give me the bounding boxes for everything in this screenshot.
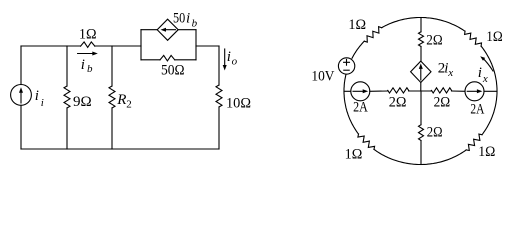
wire box bottom branch right [175,59,196,61]
resistor R2 [109,86,115,108]
wire box top branch left [141,29,157,31]
wire top middle segment [95,45,141,47]
svg-text:2Ω: 2Ω [426,32,442,48]
wire box bottom branch left [141,59,160,61]
svg-text:2Ω: 2Ω [389,95,407,111]
svg-text:50: 50 [173,11,185,27]
wire left vertical upper [20,46,22,85]
svg-text:i: i [478,65,482,81]
wire right vertical lower [218,107,220,149]
wire top right segment [196,45,219,47]
resistor 1ohm bottom-left [358,134,375,149]
resistor 1ohm top-left [364,27,381,42]
dependent source 2ix arrow (points up) [420,67,422,80]
svg-text:i: i [41,97,44,109]
svg-text:i: i [35,88,39,104]
dependent source 50ib arrow (points left) [165,29,176,31]
wire horizontal center [409,90,432,92]
svg-text:2Ω: 2Ω [427,125,443,141]
wire arc bottom [374,149,466,164]
wire horizontal left-middle [370,90,388,92]
wire horizontal right stub [484,90,497,92]
wire vertical above diamond [420,47,422,62]
svg-text:10V: 10V [311,69,334,85]
current source i_i circle [11,85,32,106]
svg-text:2A: 2A [470,102,484,118]
resistor 1ohm top-right [465,31,482,46]
current source i_i arrow [20,92,22,104]
wire vertical below center [420,91,422,125]
svg-text:1Ω: 1Ω [79,27,97,43]
svg-text:i: i [186,11,190,27]
wire horizontal right-middle [452,90,466,92]
wire vertical top stub [420,18,422,32]
wire 9ohm branch upper [66,46,68,86]
wire arc upper-left [352,41,364,58]
resistor 2ohm vertical bottom [419,125,424,141]
wire 9ohm branch lower [66,108,68,149]
dependent source 2ix diamond [411,61,431,82]
svg-text:x: x [447,67,453,79]
svg-text:b: b [192,18,198,30]
svg-text:10Ω: 10Ω [226,96,251,112]
wire top left segment [21,45,81,47]
voltage source 10V circle [338,58,354,74]
current source 2A right circle [465,82,484,101]
wire horizontal left stub [344,90,351,92]
wire R2 branch lower [111,108,113,149]
resistor R 1ohm top [81,42,95,48]
svg-text:1Ω: 1Ω [348,17,366,33]
wire parallel box left vertical [140,30,142,60]
wire arc right [481,46,497,135]
current source 2A right arrow [467,90,479,92]
svg-text:i: i [81,57,85,73]
svg-text:2: 2 [126,99,132,111]
svg-text:50Ω: 50Ω [161,63,185,79]
svg-text:9Ω: 9Ω [73,94,92,110]
current arrow i_b [78,53,94,55]
svg-text:o: o [232,56,238,68]
resistor 2ohm horizontal left [388,88,409,93]
svg-text:i: i [227,49,231,65]
current source 2A left arrow [353,90,365,92]
svg-text:1Ω: 1Ω [345,147,363,163]
dependent source 50ib diamond [157,19,178,40]
svg-text:b: b [87,63,93,75]
wire parallel box right vertical [195,30,197,60]
current arrow i_o [224,49,226,66]
wire left vertical lower [20,105,22,149]
svg-text:1Ω: 1Ω [486,29,503,45]
wire R2 branch upper [111,46,113,86]
resistor 1ohm bottom-right [466,134,482,150]
svg-text:R: R [116,92,126,108]
voltage source 10V plus sign [344,59,350,65]
svg-text:1Ω: 1Ω [478,144,495,160]
current arrow i_x (curved) [483,58,493,71]
wire arc left [344,75,359,134]
voltage source 10V minus sign [344,69,349,71]
resistor 50ohm [160,55,175,61]
resistor 9ohm [64,86,70,108]
resistor 10ohm [216,85,222,107]
wire vertical bottom stub [420,141,422,165]
wire right vertical upper [218,46,220,85]
wire box top branch right [178,29,196,31]
wire arc top [382,18,465,32]
svg-text:2Ω: 2Ω [434,95,451,111]
svg-text:x: x [482,73,488,85]
current source 2A left circle [351,82,370,101]
wire below diamond [420,83,422,92]
svg-text:2A: 2A [353,100,368,116]
resistor 2ohm horizontal right [432,88,452,93]
resistor 2ohm vertical top [419,32,424,47]
wire bottom [21,148,219,150]
